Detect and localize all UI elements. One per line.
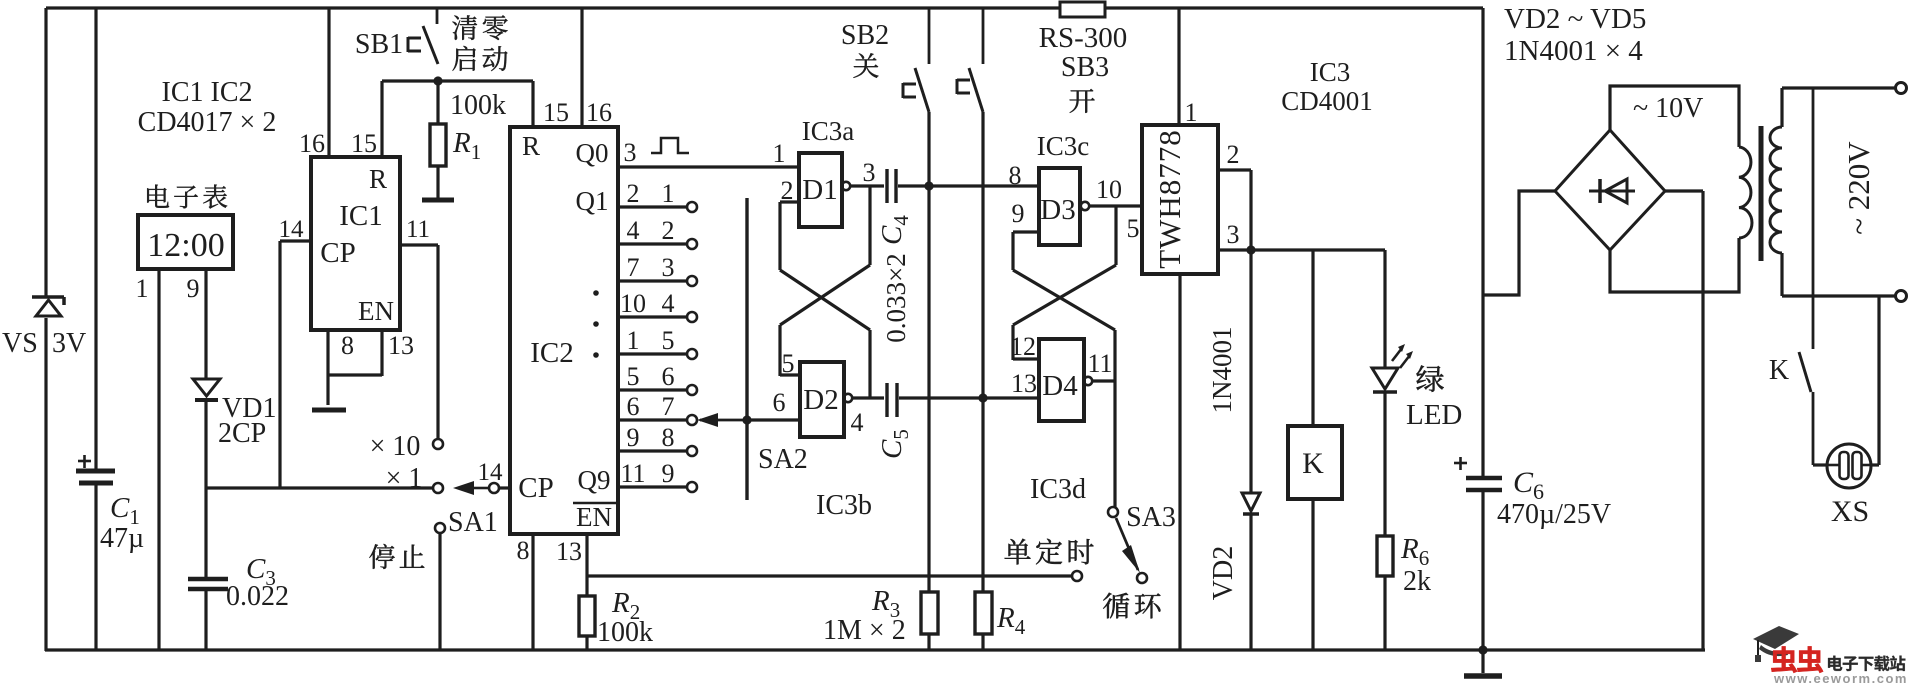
diode VD2: [1242, 493, 1260, 514]
svg-text:11: 11: [620, 459, 645, 488]
contact IC2 pin7 / position 3: [619, 253, 697, 286]
svg-text:IC3: IC3: [1310, 57, 1351, 87]
contact 停止 (SA1): [369, 507, 498, 569]
svg-text:CD4017 × 2: CD4017 × 2: [138, 107, 277, 138]
svg-text:VS: VS: [2, 328, 38, 359]
wire TWH pin2 jumper: [1218, 140, 1251, 250]
svg-text:IC2: IC2: [530, 337, 574, 369]
svg-text:1: 1: [662, 179, 675, 208]
op-amp U1 TWH8778 box: [1142, 125, 1218, 274]
wire D3 output to TWH pin5: [1089, 175, 1142, 206]
diode VD1 2CP: [193, 379, 276, 449]
svg-text:470µ/25V: 470µ/25V: [1497, 499, 1611, 530]
bridge rectifier diamond: [1555, 130, 1665, 250]
wire VD1 to C3: [204, 400, 207, 578]
wire IC1 pin14 (CP) to clock node: [279, 216, 312, 488]
capacitor C5 0.033: [876, 383, 913, 459]
switch K mains: [1769, 88, 1813, 465]
svg-text:D3: D3: [1040, 194, 1075, 226]
svg-text:IC3d: IC3d: [1030, 474, 1086, 505]
contact IC2 pin5 / position 6: [619, 362, 697, 395]
logo 虫虫 red: [1771, 646, 1823, 672]
contact IC2 pin10 / position 4: [619, 289, 697, 322]
svg-text:~ 220V: ~ 220V: [1841, 141, 1876, 235]
wire D4 input12 label: [1010, 332, 1036, 361]
svg-text:4: 4: [662, 289, 675, 318]
bridge diode symbol: [1589, 179, 1635, 203]
label IC3d: [1030, 474, 1086, 505]
node SB1/R1 junction: [433, 76, 442, 85]
wire junction to VD2: [1249, 250, 1252, 493]
svg-text:XS: XS: [1831, 495, 1869, 528]
clock module 12:00 box: [138, 215, 233, 269]
contact 循环 (SA3): [1103, 573, 1160, 618]
label VD2~VD5 1N4001x4: [1504, 3, 1646, 67]
svg-text:Q9: Q9: [578, 465, 611, 495]
svg-text:9: 9: [1012, 199, 1025, 228]
wire C3 to ground rail: [204, 591, 207, 651]
wire primary bottom to 220V terminal: [1782, 253, 1897, 296]
wire TWH pin1 from rail: [1179, 8, 1198, 127]
svg-text:8: 8: [1009, 161, 1022, 190]
wire D2 input5 label: [782, 349, 795, 378]
svg-text:SB1: SB1: [355, 29, 403, 60]
wire primary top to 220V terminal: [1782, 88, 1897, 127]
resistor R1 100k: [430, 81, 506, 198]
LED green indicator: [1372, 344, 1462, 431]
wire clock pin1 to ground rail: [136, 269, 160, 651]
svg-text:3: 3: [863, 158, 876, 187]
svg-text:R: R: [369, 164, 387, 194]
svg-text:3: 3: [662, 253, 675, 282]
svg-text:D4: D4: [1042, 370, 1078, 402]
svg-text:15: 15: [351, 129, 377, 158]
wire D2 output to C5: [851, 398, 885, 437]
wire top supply rail (left of fuse): [46, 6, 1060, 9]
label IC3c: [1037, 131, 1090, 161]
svg-text:13: 13: [388, 331, 414, 360]
svg-text:D1: D1: [802, 174, 837, 206]
svg-text:VD2 ~ VD5: VD2 ~ VD5: [1504, 3, 1646, 35]
resistor R6 2k: [1377, 533, 1431, 597]
label ~220V: [1841, 141, 1876, 235]
transformer primary coil: [1770, 127, 1782, 253]
label IC1 IC2 CD4017x2: [138, 77, 277, 138]
wire XS to 220V bottom: [1870, 296, 1879, 465]
wire IC2 pin8 to ground rail: [517, 534, 534, 651]
resistor R2 100k: [579, 587, 653, 651]
label IC3a: [802, 116, 855, 146]
socket XS: [1813, 444, 1871, 528]
svg-text:2: 2: [1227, 140, 1240, 169]
wire 停止 contact to ground rail: [438, 533, 441, 651]
wire D4 output to SA3: [1087, 349, 1115, 507]
label 1N4001 (VD2): [1207, 327, 1237, 414]
svg-text:10: 10: [620, 289, 646, 318]
svg-text:IC1: IC1: [339, 200, 383, 232]
label IC3b: [816, 490, 872, 521]
contact IC2 pin2 / position 1: [619, 179, 697, 212]
contact x1: [386, 463, 443, 494]
label 电子表: [147, 185, 227, 209]
wire TWH pin3 output: [1127, 214, 1386, 250]
wire IC1 pin11 to x10 contact: [400, 216, 438, 439]
svg-text:1M × 2: 1M × 2: [823, 615, 906, 646]
wire D1 output to C4: [850, 158, 884, 187]
capacitor C3 0.022: [188, 553, 289, 612]
switch SA3 wiper: [1108, 502, 1176, 573]
svg-text:12: 12: [1010, 332, 1036, 361]
wire bridge DC+ to ground rail: [1665, 191, 1703, 651]
wire left border rail lower: [44, 318, 47, 651]
svg-text:SB3: SB3: [1061, 52, 1109, 83]
svg-text:9: 9: [627, 423, 640, 452]
svg-text:9: 9: [187, 274, 200, 303]
svg-text:5: 5: [1127, 214, 1140, 243]
svg-text:R: R: [522, 131, 540, 161]
svg-text:14: 14: [478, 459, 504, 486]
ground below R1: [422, 198, 454, 203]
svg-text:10: 10: [1096, 175, 1122, 204]
capacitor C6 470µ/25V: [1454, 457, 1611, 530]
wire C4 to D3 input8: [898, 184, 1039, 187]
svg-text:13: 13: [1011, 369, 1037, 398]
wire SA2 to D2 input6: [747, 388, 800, 420]
svg-text:0.033×2: 0.033×2: [881, 253, 911, 342]
svg-text:www.eeworm.com: www.eeworm.com: [1773, 671, 1908, 685]
wire relay K branch: [1311, 250, 1314, 426]
svg-text:4: 4: [851, 408, 864, 437]
svg-text:5: 5: [782, 349, 795, 378]
wire D1 input1 label: [773, 139, 786, 168]
svg-text:CP: CP: [320, 237, 355, 269]
svg-text:Q0: Q0: [576, 138, 609, 168]
wire TWH pin4 to ground rail: [1178, 274, 1181, 651]
svg-text:IC3c: IC3c: [1037, 131, 1090, 161]
svg-text:1: 1: [136, 274, 149, 303]
node SA2/D2 junction: [742, 415, 751, 424]
resistor R4 1M: [975, 592, 1026, 651]
wire LED to R6: [1383, 392, 1386, 536]
wire cross-couple D2out to D1in2: [780, 202, 870, 398]
transformer secondary coil: [1739, 147, 1752, 238]
svg-text:2: 2: [627, 179, 640, 208]
resistor R3 1M: [823, 585, 938, 651]
svg-text:6: 6: [773, 388, 786, 417]
svg-text:1: 1: [627, 326, 640, 355]
logo www.eeworm.com: [1773, 671, 1908, 685]
wire VD2 to ground rail: [1249, 514, 1252, 651]
wire C5 to D4 input13: [899, 396, 1039, 399]
svg-text:IC3b: IC3b: [816, 490, 872, 521]
terminal 220V top: [1896, 83, 1907, 94]
svg-text:LED: LED: [1406, 399, 1462, 431]
svg-text:IC3a: IC3a: [802, 116, 855, 146]
contact IC2 pin1 / position 5: [619, 326, 697, 359]
svg-text:6: 6: [627, 392, 640, 421]
svg-text:K: K: [1302, 447, 1324, 480]
ground symbol main: [1464, 650, 1502, 676]
wire D3 input9 bracket: [1012, 199, 1040, 232]
svg-text:6: 6: [662, 362, 675, 391]
svg-text:47µ: 47µ: [100, 523, 144, 554]
svg-text:11: 11: [1087, 349, 1112, 378]
label IC3 CD4001: [1281, 57, 1373, 116]
svg-text:SB2: SB2: [841, 20, 889, 51]
wire SB3 to R4: [981, 112, 984, 592]
wire LED branch: [1383, 250, 1386, 368]
svg-text:8: 8: [517, 536, 530, 565]
svg-text:CD4001: CD4001: [1281, 86, 1373, 116]
contact IC2 pin9 / position 8: [619, 423, 697, 456]
svg-text:5: 5: [627, 362, 640, 391]
fuse RS-300: [1039, 2, 1128, 54]
node pin3 output junction: [1246, 245, 1255, 254]
capacitor C1 47µ: [76, 455, 144, 554]
contact x10: [370, 431, 443, 462]
svg-text:1: 1: [1185, 98, 1198, 127]
svg-text:14: 14: [279, 216, 305, 243]
svg-text:16: 16: [299, 129, 325, 158]
svg-text:9: 9: [662, 459, 675, 488]
svg-text:7: 7: [662, 392, 675, 421]
contact IC2 pin11 / position 9: [619, 459, 697, 492]
wire top supply rail (right of fuse): [1105, 6, 1483, 9]
op-amp IC1 CD4017 box: [311, 157, 400, 330]
wire IC2 pin16 from rail: [582, 8, 612, 127]
relay K box: [1288, 426, 1342, 499]
svg-text:SA2: SA2: [758, 444, 808, 475]
switch SB1 (清零/启动): [355, 8, 508, 71]
svg-text:15: 15: [543, 98, 569, 127]
node C5/SB3 junction: [978, 393, 987, 402]
svg-text:~ 10V: ~ 10V: [1633, 93, 1703, 124]
wire bridge bottom AC to secondary: [1610, 238, 1739, 292]
logo 电子下载站: [1828, 656, 1905, 672]
svg-text:4: 4: [627, 216, 640, 245]
svg-text:12:00: 12:00: [147, 227, 224, 264]
contact IC2 pin4 / position 2: [619, 216, 697, 249]
wire SB1 output node horizontal: [382, 79, 533, 82]
svg-text:CP: CP: [518, 472, 553, 504]
wire D1 input2 bracket: [780, 176, 799, 205]
wire bottom ground rail: [45, 648, 1705, 651]
svg-text:2k: 2k: [1403, 566, 1431, 597]
svg-text:D2: D2: [803, 384, 838, 416]
svg-text:11: 11: [406, 216, 430, 243]
wire cross-couple D3out to D4in12: [1013, 206, 1116, 360]
wire bridge left jog: [1483, 191, 1555, 295]
svg-text:VD2: VD2: [1208, 546, 1239, 600]
wire Q0 pin3 to D1 input1: [619, 138, 799, 167]
svg-text:100k: 100k: [450, 90, 506, 121]
terminal 220V bottom: [1896, 291, 1907, 302]
svg-text:2CP: 2CP: [218, 418, 266, 449]
wire D4 input13 label: [1011, 369, 1037, 398]
wire cross-couple D1out to D2in5: [780, 186, 870, 376]
svg-text:IC1 IC2: IC1 IC2: [162, 77, 253, 108]
svg-text:3: 3: [624, 138, 637, 167]
svg-text:EN: EN: [358, 296, 394, 326]
svg-text:3V: 3V: [52, 328, 86, 359]
switch SA1 wiper with arrow: [453, 459, 510, 495]
contact 单定时: [1005, 539, 1094, 581]
label 0.033x2 (C4 C5 value): [881, 253, 911, 342]
contact IC2 pin6 / position 7 (selected): [619, 392, 697, 425]
op-amp D1 gate (IC3a): [799, 153, 850, 227]
wire R6 to ground rail: [1383, 576, 1386, 651]
svg-text:2: 2: [662, 216, 675, 245]
svg-text:0.022: 0.022: [226, 581, 289, 612]
op-amp D4 gate (IC3d): [1039, 339, 1092, 421]
transformer core: [1759, 126, 1764, 261]
wire IC2 pin15 drop: [533, 81, 569, 127]
wire clock node to x1 contact: [206, 486, 433, 489]
svg-text:2: 2: [781, 176, 794, 205]
label VD2: [1208, 546, 1239, 600]
logo graduation cap: [1753, 626, 1799, 662]
svg-text:EN: EN: [576, 502, 612, 532]
wire clock pin9 down: [187, 269, 207, 379]
wire single-timing line to SA3: [587, 574, 1072, 577]
switch SB3 开: [957, 8, 1109, 113]
svg-text:7: 7: [627, 253, 640, 282]
op-amp D2 gate (IC3b): [800, 362, 852, 437]
svg-text:8: 8: [662, 423, 675, 452]
svg-text:K: K: [1769, 355, 1789, 386]
diode VS 3V zener: [2, 297, 86, 359]
node main ground junction: [1478, 645, 1487, 654]
ground below IC1: [312, 408, 346, 413]
svg-text:1N4001 × 4: 1N4001 × 4: [1504, 35, 1643, 67]
svg-text:3: 3: [1227, 220, 1240, 249]
svg-text:13: 13: [556, 537, 582, 566]
wire SB2 to R3: [927, 112, 930, 592]
wire K to ground rail: [1311, 499, 1314, 651]
svg-text:1: 1: [773, 139, 786, 168]
node C4/SB2 junction: [924, 181, 933, 190]
wire battery branch: [94, 8, 97, 651]
svg-text:× 10: × 10: [370, 431, 421, 462]
svg-text:Q1: Q1: [576, 186, 609, 216]
wire cross-couple D4out to D3in9: [1013, 232, 1115, 381]
wire SA2 wiper arrow to pin6 contact: [697, 413, 747, 427]
op-amp IC2 CD4017 box: [510, 127, 618, 534]
svg-text:5: 5: [662, 326, 675, 355]
svg-text:16: 16: [586, 98, 612, 127]
wire IC1 pin15 drop: [351, 81, 382, 158]
wire D3 input8 label: [1009, 161, 1022, 190]
svg-text:SA1: SA1: [448, 507, 498, 538]
wire IC1 pins 8/13 to ground: [328, 330, 414, 405]
svg-text:RS-300: RS-300: [1039, 22, 1128, 54]
svg-text:1N4001: 1N4001: [1207, 327, 1237, 414]
wire bridge top AC to secondary: [1610, 86, 1739, 147]
svg-text:100k: 100k: [597, 617, 653, 648]
switch SB2 关: [841, 8, 929, 112]
svg-text:TWH8778: TWH8778: [1152, 129, 1187, 269]
wire left border rail upper: [44, 8, 47, 298]
op-amp D3 gate (IC3c): [1039, 168, 1089, 245]
capacitor C4 0.033: [876, 169, 913, 245]
wire C6 to ground rail: [1481, 492, 1484, 651]
svg-text:× 1: × 1: [386, 463, 423, 494]
wire right supply vertical (to C6): [1481, 8, 1484, 477]
switch SA2 wiper bar: [747, 198, 808, 500]
svg-text:SA3: SA3: [1126, 502, 1176, 533]
svg-text:8: 8: [341, 331, 354, 360]
wire IC2 pin13 down: [556, 534, 587, 596]
wire IC1 pin16 from rail: [299, 8, 329, 158]
